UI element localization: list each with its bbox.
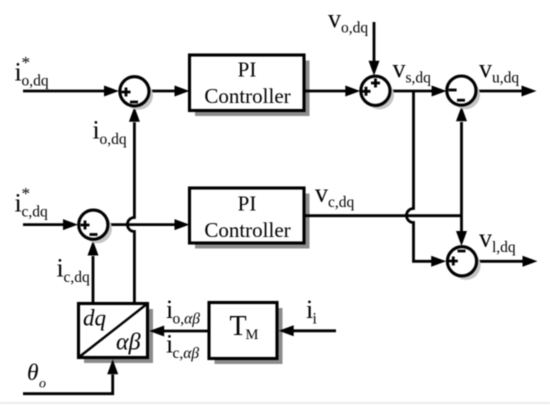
summing junction J2 shadow	[83, 214, 112, 243]
wire branch down into J5 top	[456, 216, 467, 246]
label ic*,dq	[15, 184, 49, 221]
svg-text:u,dq: u,dq	[492, 70, 519, 87]
wire J1 to U1	[149, 86, 190, 97]
svg-text:Controller: Controller	[204, 218, 290, 242]
svg-text:o: o	[39, 377, 46, 392]
dq/ab transform block U3	[79, 304, 148, 358]
wire J4 output vu,dq	[478, 86, 537, 97]
svg-text:PI: PI	[238, 58, 257, 82]
wire TM to U3	[149, 326, 209, 337]
svg-text:PI: PI	[238, 192, 257, 216]
PI controller block U2	[190, 188, 305, 243]
summing junction J5 shadow	[451, 251, 480, 280]
svg-text:M: M	[246, 327, 259, 343]
label io,dq feedback	[93, 116, 127, 149]
label vu,dq	[479, 54, 519, 87]
svg-text:v: v	[315, 179, 328, 208]
TM block U4	[209, 303, 277, 359]
svg-text:o,dq: o,dq	[341, 20, 368, 37]
wire branch up into J4 bottom	[456, 106, 467, 216]
summing junction J1	[120, 77, 149, 106]
label vs,dq	[393, 54, 432, 87]
label ii	[306, 295, 318, 328]
svg-text:o,dq: o,dq	[22, 73, 49, 90]
label ic,dq feedback	[57, 254, 91, 287]
svg-text:Controller: Controller	[204, 84, 290, 108]
summing junction J5	[447, 247, 476, 276]
svg-text:c,dq: c,dq	[22, 204, 49, 221]
svg-text:o,dq: o,dq	[100, 131, 127, 148]
summing junction J3 shadow	[365, 80, 394, 109]
svg-text:v: v	[328, 4, 341, 33]
wire U1 to J3	[304, 86, 360, 97]
svg-text:c,dq: c,dq	[328, 194, 355, 211]
wire J3 to J4	[390, 86, 447, 97]
svg-text:s,dq: s,dq	[406, 70, 432, 87]
summing junction J4 shadow	[451, 80, 480, 109]
svg-text:*: *	[22, 184, 31, 203]
svg-text:o,αβ: o,αβ	[173, 311, 201, 328]
wire feedback io,dq from U3 top up with hop into J1 bottom	[127, 107, 139, 304]
label io,ab	[166, 295, 200, 328]
wire input io* to J1	[23, 86, 119, 97]
summing junction J3	[361, 76, 390, 105]
wire J2 to U2	[108, 219, 190, 230]
svg-text:l,dq: l,dq	[492, 239, 516, 256]
svg-text:v: v	[479, 54, 492, 83]
svg-text:T: T	[230, 311, 247, 342]
svg-text:v: v	[393, 54, 406, 83]
wire input ic* to J2	[23, 219, 78, 230]
wire J5 output vl,dq	[477, 256, 538, 267]
label theta_o	[27, 360, 46, 392]
wire vo,dq into J3 top	[369, 22, 380, 76]
dq/ab transform block U3 shadow	[84, 309, 153, 363]
svg-text:dq: dq	[83, 306, 106, 331]
svg-text:v: v	[479, 224, 492, 253]
wire feedback ic,dq from U3 top into J2 bottom	[88, 241, 99, 304]
TM block U4 shadow	[215, 308, 283, 364]
summing junction J2	[79, 210, 108, 239]
label io*,dq	[15, 53, 49, 90]
svg-text:θ: θ	[27, 360, 39, 386]
wire vs,dq branch down with hop to J5 left	[407, 91, 447, 267]
svg-text:i: i	[313, 311, 318, 328]
wire ii into TM	[279, 325, 336, 336]
svg-text:*: *	[22, 53, 31, 72]
label vc,dq	[315, 179, 355, 212]
PI controller block U2 shadow	[195, 194, 310, 249]
svg-text:c,αβ: c,αβ	[173, 345, 200, 362]
svg-text:c,dq: c,dq	[64, 269, 91, 286]
label vl,dq	[479, 224, 516, 257]
wire theta into U3 bottom	[23, 359, 118, 394]
faint page rule at bottom	[0, 402, 550, 404]
summing junction J4	[447, 76, 476, 105]
svg-text:αβ: αβ	[116, 330, 141, 356]
label vo,dq	[328, 4, 368, 37]
PI controller block U1	[190, 55, 305, 111]
label ic,ab	[166, 330, 199, 363]
summing junction J1 shadow	[124, 81, 153, 110]
wire U2 output vc,dq to branch node	[304, 214, 462, 217]
PI controller block U1 shadow	[195, 61, 310, 117]
